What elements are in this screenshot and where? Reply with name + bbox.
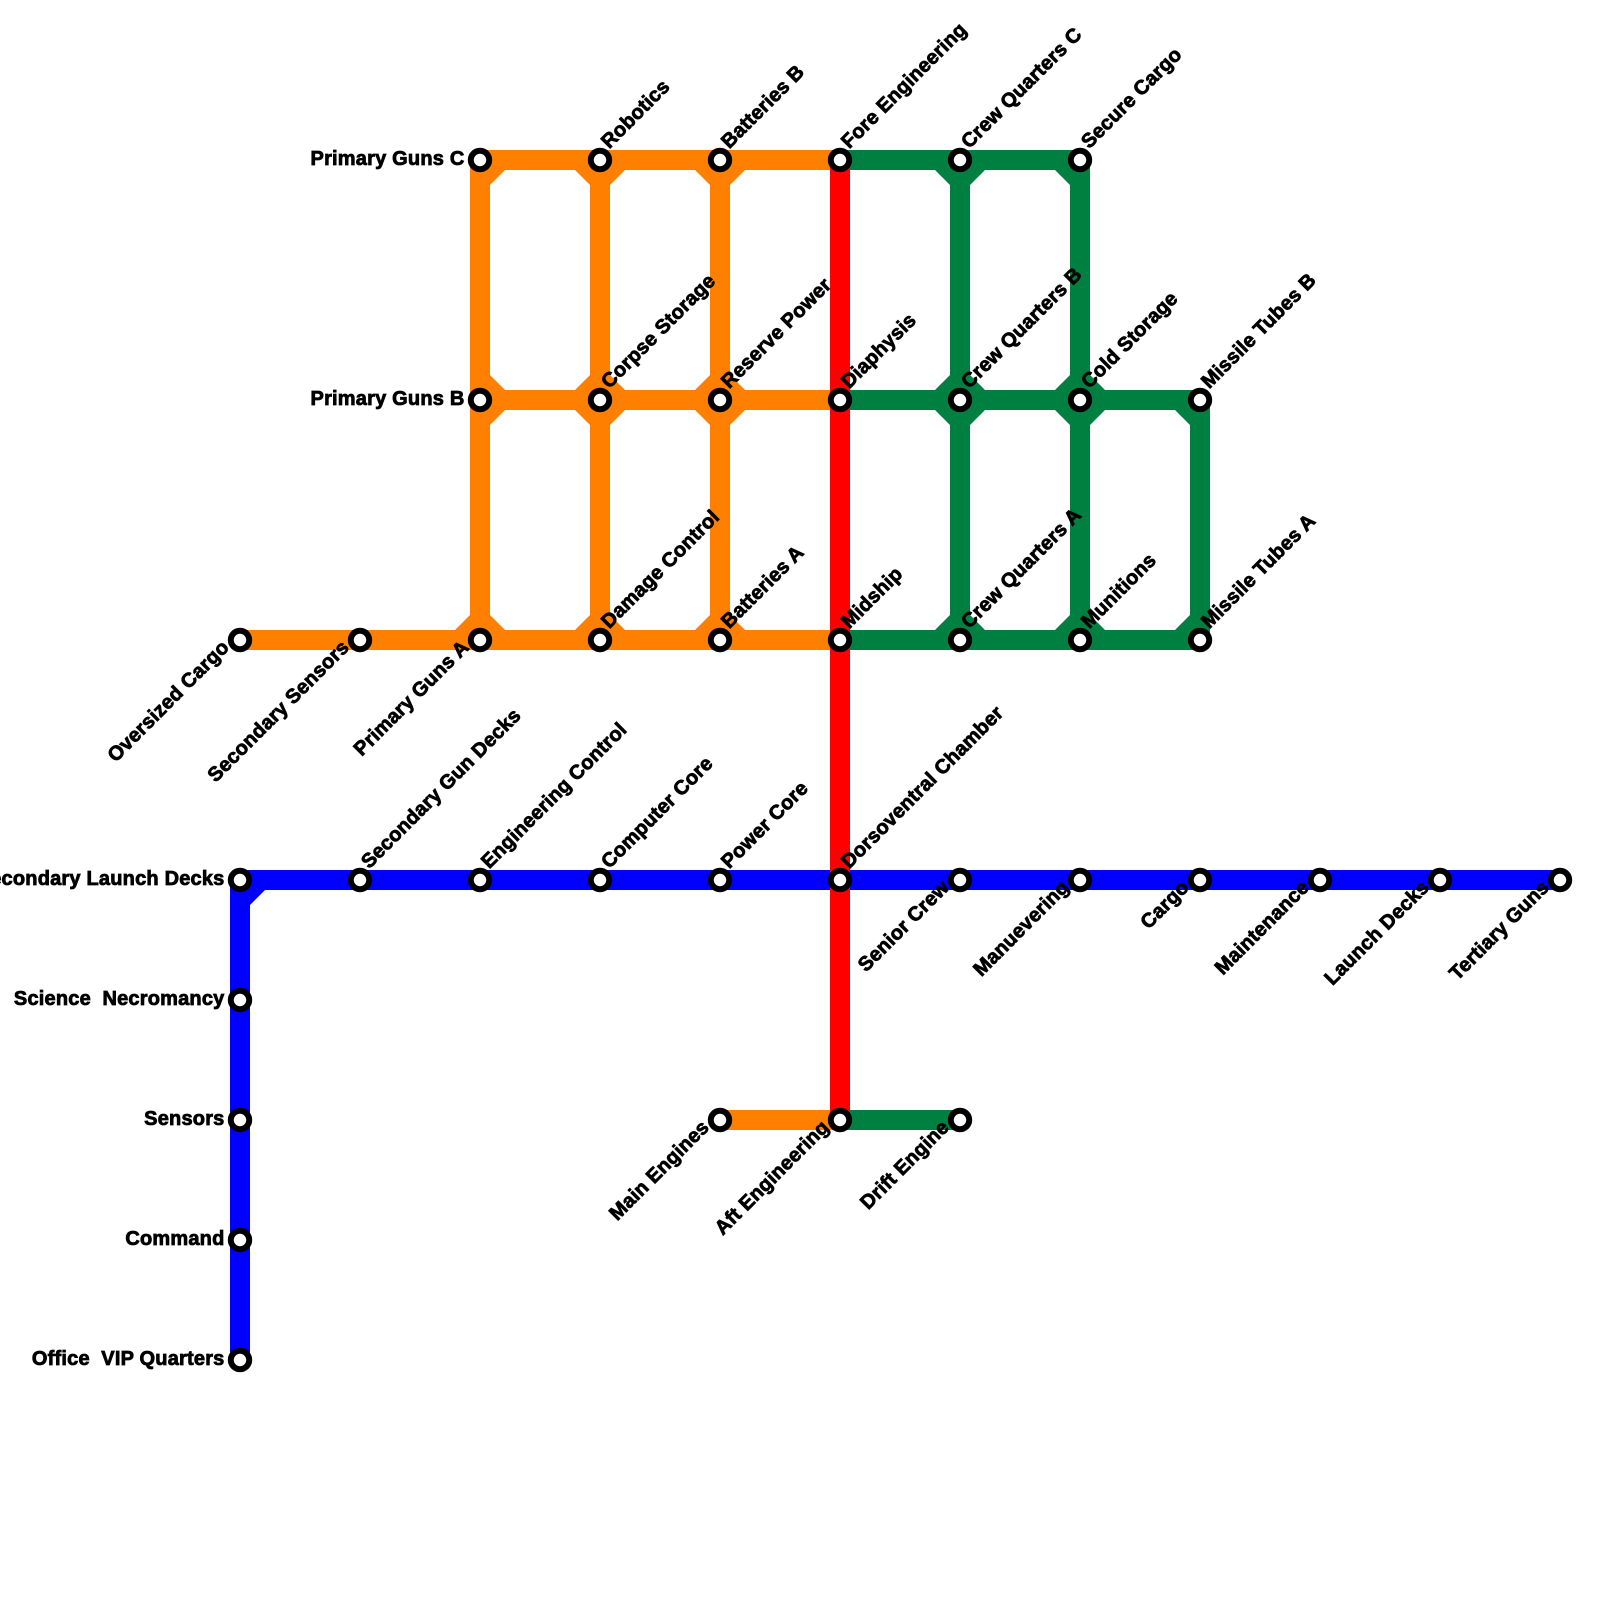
station node (720,640) (711, 631, 729, 649)
fillet blue corner at Secondary Launch Decks (250, 890, 265, 905)
station node (480,880) (471, 871, 489, 889)
station node (960,1120) (951, 1111, 969, 1129)
station node (240,1360) (231, 1351, 249, 1369)
station node (240,1000) (231, 991, 249, 1009)
wire blue vertical command spur (230, 880, 250, 1360)
wire red spinal line (830, 160, 850, 1120)
svg-text:Office VIP Quarters: Office VIP Quarters (32, 1348, 225, 1370)
fillet green at Crew Quarters B (935, 375, 985, 425)
wire green row3 horizontal (840, 630, 1200, 650)
station node (840,880) (831, 871, 849, 889)
station node (1320,880) (1311, 871, 1329, 889)
wire orange vertical x600 (590, 160, 610, 640)
station node (600,400) (591, 391, 609, 409)
fillet green at Missile Tubes B (1175, 410, 1190, 425)
fillet orange at Primary Guns B (490, 375, 505, 425)
fillet green at Crew Quarters C (935, 170, 985, 185)
wire green engine segment (840, 1110, 960, 1130)
station node (720,400) (711, 391, 729, 409)
fillet orange at Primary Guns C (490, 170, 505, 185)
svg-text:Science Necromancy: Science Necromancy (14, 988, 225, 1010)
station node (600,160) (591, 151, 609, 169)
svg-text:Secondary Launch Decks: Secondary Launch Decks (0, 868, 225, 890)
station node (960,160) (951, 151, 969, 169)
station node (840,640) (831, 631, 849, 649)
station node (840,1120) (831, 1111, 849, 1129)
station node (960,640) (951, 631, 969, 649)
station node (1200,880) (1191, 871, 1209, 889)
station node (1080,880) (1071, 871, 1089, 889)
fillet orange at Corpse Storage (575, 375, 625, 425)
station node (480,160) (471, 151, 489, 169)
fillet orange at Damage Control (575, 615, 625, 630)
fillet orange at Batteries A (695, 615, 745, 630)
station node (360,640) (351, 631, 369, 649)
station node (240,1240) (231, 1231, 249, 1249)
station node (1080,640) (1071, 631, 1089, 649)
wire green row1 horizontal (840, 150, 1080, 170)
wire orange row3 horizontal (240, 630, 840, 650)
fillet green at Munitions (1055, 615, 1105, 630)
fillet green at Cold Storage (1055, 375, 1105, 425)
fillet green at Crew Quarters A (935, 615, 985, 630)
station node (1080,400) (1071, 391, 1089, 409)
fillet orange at Robotics (575, 170, 625, 185)
fillet orange at Primary Guns A (455, 615, 505, 630)
wire green vertical x1200 (1190, 400, 1210, 640)
wire orange row1 horizontal (480, 150, 840, 170)
station node (480,640) (471, 631, 489, 649)
station node (960,880) (951, 871, 969, 889)
station node (840,400) (831, 391, 849, 409)
fillet orange at Reserve Power (695, 375, 745, 425)
station node (840,160) (831, 151, 849, 169)
wire orange engine segment (720, 1110, 840, 1130)
station node (960,400) (951, 391, 969, 409)
station node (240,640) (231, 631, 249, 649)
wire green vertical x1080 (1070, 160, 1090, 640)
station node (1440,880) (1431, 871, 1449, 889)
station node (240,880) (231, 871, 249, 889)
station node (360,880) (351, 871, 369, 889)
station node (240,1120) (231, 1111, 249, 1129)
svg-text:Primary Guns B: Primary Guns B (311, 388, 465, 410)
station node (720,160) (711, 151, 729, 169)
wire orange vertical x720 (710, 160, 730, 640)
fillet green at Secure Cargo (1055, 170, 1070, 185)
wire orange vertical x480 (470, 160, 490, 640)
station node (1080,160) (1071, 151, 1089, 169)
wire green row2 horizontal (840, 390, 1200, 410)
wire green vertical x960 (950, 160, 970, 640)
wire blue horizontal main deck (240, 870, 1560, 890)
station node (720,1120) (711, 1111, 729, 1129)
station node (480,400) (471, 391, 489, 409)
station node (1200,640) (1191, 631, 1209, 649)
wire orange row2 horizontal (480, 390, 840, 410)
svg-text:Command: Command (125, 1228, 224, 1250)
svg-text:Primary Guns C: Primary Guns C (311, 148, 465, 170)
station node (720,880) (711, 871, 729, 889)
station node (1200,400) (1191, 391, 1209, 409)
station node (1560,880) (1551, 871, 1569, 889)
fillet green at Missile Tubes A (1175, 615, 1190, 630)
station node (600,640) (591, 631, 609, 649)
station node (600,880) (591, 871, 609, 889)
fillet orange at Batteries B (695, 170, 745, 185)
svg-text:Sensors: Sensors (144, 1108, 224, 1130)
